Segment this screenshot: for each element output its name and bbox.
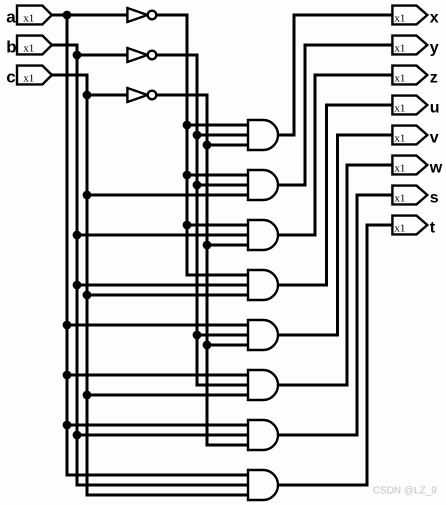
- svg-text:x1: x1: [23, 73, 34, 85]
- svg-text:x1: x1: [394, 103, 405, 115]
- svg-text:v: v: [430, 130, 439, 147]
- svg-text:x: x: [430, 10, 439, 27]
- svg-text:x1: x1: [394, 73, 405, 85]
- svg-text:CSDN @LZ_9: CSDN @LZ_9: [373, 486, 437, 497]
- svg-text:x1: x1: [23, 13, 34, 25]
- svg-text:w: w: [429, 160, 443, 177]
- svg-text:a: a: [6, 8, 16, 27]
- svg-text:s: s: [430, 190, 439, 207]
- svg-text:x1: x1: [394, 43, 405, 55]
- svg-text:x1: x1: [23, 43, 34, 55]
- svg-text:x1: x1: [394, 193, 405, 205]
- svg-text:b: b: [6, 38, 16, 57]
- svg-text:u: u: [430, 100, 440, 117]
- svg-text:x1: x1: [394, 223, 405, 235]
- svg-text:t: t: [430, 220, 436, 237]
- svg-text:y: y: [430, 40, 439, 57]
- svg-text:c: c: [6, 68, 15, 87]
- svg-text:x1: x1: [394, 13, 405, 25]
- svg-text:z: z: [430, 70, 438, 87]
- svg-text:x1: x1: [394, 133, 405, 145]
- svg-text:x1: x1: [394, 163, 405, 175]
